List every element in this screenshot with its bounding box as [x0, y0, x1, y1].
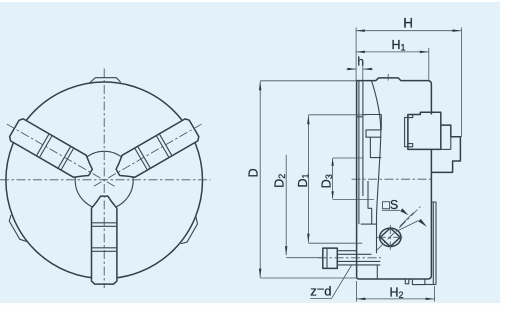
section break curve: [372, 81, 381, 216]
bottom tab large: [412, 279, 425, 285]
key shaft lines: [337, 250, 357, 252]
socket diagonal center line: [376, 207, 421, 252]
socket diagonal upper segment: [400, 213, 414, 227]
key pinion head: [323, 248, 338, 268]
S label leader underline: [382, 209, 400, 211]
svg-text:D2: D2: [272, 174, 287, 188]
side view jaw front face: [357, 81, 360, 279]
svg-text:H: H: [403, 15, 413, 30]
key shaft center line: [318, 257, 381, 259]
rear jaw block body: [408, 112, 441, 149]
dim D1: [307, 115, 309, 242]
rim bump lower-right: [181, 216, 198, 243]
diagonal center line 150deg: [5, 123, 115, 187]
z-d leader underline: [310, 297, 331, 299]
rear jaw block plate: [405, 117, 408, 146]
jaw tooth section zigzag: [363, 115, 381, 138]
svg-text:h: h: [358, 57, 364, 69]
dim H1: [356, 51, 429, 53]
jaw slot tick on top bump: [387, 74, 389, 81]
S measuring line: [396, 221, 419, 232]
dim h: [347, 68, 357, 70]
side view horizontal center line: [352, 178, 432, 180]
side view right face lower: [428, 149, 432, 279]
z-d leader: [332, 265, 353, 299]
dim H: [356, 30, 462, 32]
side view bottom edge: [360, 278, 428, 280]
svg-text:z−d: z−d: [310, 282, 331, 299]
dim H2: [356, 298, 434, 300]
left extension (H,H1,h): [355, 28, 357, 81]
rim bump top: [90, 78, 121, 83]
jaw tooth face line: [358, 81, 360, 225]
rear flange bottom cap: [425, 284, 436, 286]
rear jaw block tab top: [408, 115, 413, 118]
side view top edge with rim bump: [357, 78, 432, 115]
svg-text:D: D: [247, 168, 261, 177]
dim D: [259, 81, 261, 277]
rear jaw staircase: [431, 125, 460, 172]
lower guide profile: [368, 181, 372, 224]
H1 right extension: [428, 48, 430, 80]
center hub circle: [75, 151, 133, 209]
right face rail: [431, 202, 436, 285]
svg-text:H1: H1: [392, 38, 406, 53]
jaw step edge upper: [357, 116, 363, 118]
horizontal center line front view: [0, 179, 211, 181]
svg-text:D3: D3: [320, 174, 335, 188]
vertical center line front view: [103, 69, 105, 289]
chuck body outer circle: [6, 82, 203, 279]
upper-left jaw: [10, 119, 93, 177]
svg-text:D1: D1: [296, 173, 311, 187]
socket cross lines: [377, 236, 404, 238]
dim D2: [285, 155, 287, 255]
svg-text:□S: □S: [382, 198, 398, 212]
rear jaw block tab bottom: [408, 144, 413, 147]
key socket circle: [380, 228, 401, 246]
bottom tab small: [405, 279, 409, 284]
body front face line: [362, 81, 364, 196]
rim bump lower-left: [9, 215, 27, 242]
dim D3: [332, 158, 334, 199]
diagonal center line 30deg: [94, 123, 204, 187]
H right extension: [460, 28, 462, 138]
svg-text:H2: H2: [390, 286, 404, 301]
upper-right jaw: [116, 119, 199, 177]
square socket diamond: [380, 228, 400, 247]
bottom jaw: [92, 196, 117, 284]
